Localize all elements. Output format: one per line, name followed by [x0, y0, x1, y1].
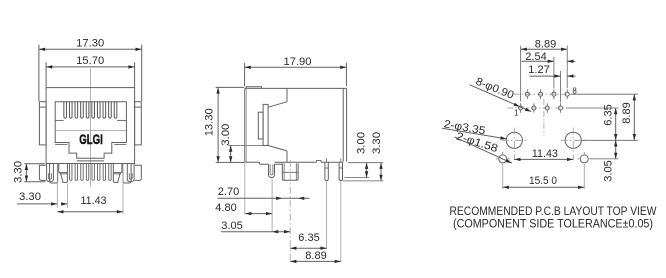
pcb layout: dimension 8.89 (pin1 to pin8 horizontal) [521, 38, 568, 101]
side view: dimension 3.00 (pin length, vertical right) [356, 132, 369, 178]
side view: locating post [282, 163, 298, 180]
pcb layout: pin 1 label [514, 108, 519, 117]
svg-text:17.90: 17.90 [284, 56, 312, 68]
pcb layout: dimension 15.50 (small hole spacing) [503, 175, 585, 189]
side view: dimension 3.00 (card height, vertical) [220, 124, 263, 163]
svg-text:GLGI: GLGI [79, 131, 103, 147]
svg-text:1: 1 [514, 108, 519, 117]
pcb layout: bottom pin row holes (pins 1,3,5,7) [507, 103, 566, 113]
pcb layout: pin 8 label [572, 87, 577, 96]
pcb layout: callout 2-phi3.35 [442, 118, 507, 139]
svg-text:2.70: 2.70 [218, 186, 240, 198]
svg-text:8.89: 8.89 [535, 38, 557, 50]
svg-text:15.70: 15.70 [76, 55, 104, 67]
front view: right shield leg pair [123, 164, 134, 184]
pcb layout: dimension 1.27 (row offset) [528, 64, 575, 102]
svg-text:17.30: 17.30 [76, 37, 104, 49]
front view: left locating tab [59, 164, 68, 183]
side view: top front lip [246, 87, 261, 89]
side view: dimension 6.35 (post to pin1) [290, 232, 326, 250]
side view: right extension lines [343, 163, 383, 181]
front view: dimension 17.30 (overall width) [39, 37, 142, 101]
front view: left shield leg pair [47, 164, 58, 184]
front view: right outer shield ear [135, 165, 142, 180]
front view: cavity back edge line [55, 130, 126, 132]
svg-text:3.05: 3.05 [221, 220, 243, 232]
side view: dimension 4.80 (face to leg) [215, 202, 272, 216]
front view: 8 contact pins [70, 164, 112, 181]
svg-text:8.89: 8.89 [621, 102, 633, 124]
svg-text:15.5 0: 15.5 0 [529, 175, 557, 187]
front view: right locating tab [113, 164, 122, 183]
pcb layout: right extension lines [566, 94, 638, 159]
svg-text:RECOMMENDED P.C.B LAYOUT TOP V: RECOMMENDED P.C.B LAYOUT TOP VIEW [450, 206, 657, 218]
front view: contact comb (8 contact slots) [55, 102, 126, 121]
pcb layout: dimension 8.89 (vertical right) [621, 94, 636, 140]
side view: dimension 8.89 (post to pin2) [290, 250, 341, 263]
pcb layout: left small hole (phi 1.58) [496, 152, 509, 189]
pcb layout: dimension 6.35 (vertical right) [603, 104, 618, 140]
front view: vertical centerline [89, 69, 91, 187]
pcb layout: dimension 11.43 (mounting hole spacing) [514, 148, 573, 161]
svg-text:3.00: 3.00 [356, 132, 368, 154]
svg-text:3.30: 3.30 [12, 161, 24, 183]
front view: extension line right leg [122, 164, 124, 215]
front view: extension line left leg [56, 164, 58, 208]
pcb layout: title text [450, 206, 657, 230]
front view: dimension 11.43 (pin field width) [57, 195, 123, 214]
svg-text:8.89: 8.89 [305, 250, 327, 262]
side view: bottom edge with step [245, 161, 343, 165]
side view: cavity back wall [268, 88, 287, 162]
front view: connector body outline [46, 88, 135, 164]
pcb layout: right small hole (phi 1.58) [578, 152, 591, 189]
side view: dimension 17.90 (depth) [245, 56, 347, 86]
front view: left side tab [39, 102, 46, 145]
pcb layout: dimension 2.54 (pin pitch) [522, 51, 576, 89]
svg-text:3.30: 3.30 [19, 191, 41, 203]
side view: body outline [245, 88, 347, 162]
svg-text:13.30: 13.30 [204, 108, 216, 136]
front view: dimension 3.30 (leg length, vertical) [12, 161, 45, 183]
svg-text:3.00: 3.00 [220, 124, 232, 146]
front view: GLGI logo text [79, 131, 103, 147]
svg-text:3.05: 3.05 [603, 160, 615, 182]
svg-text:1.27: 1.27 [528, 64, 550, 76]
side view: dimension 2.70 (post diameter) [218, 186, 310, 200]
side view: dimension 13.30 (height, vertical) [204, 87, 245, 162]
side view: contact card [263, 104, 268, 145]
side view: contact pin 2 (through-hole) [339, 158, 342, 180]
side view: extension lines below [245, 160, 341, 262]
side view: front shield leg (hairpin) [269, 164, 275, 177]
pcb layout: top pin row holes (pins 2,4,6,8) [514, 89, 577, 99]
svg-text:4.80: 4.80 [215, 202, 237, 214]
side view: dimension 3.30 (leg length, vertical right) [371, 132, 383, 181]
pcb layout: right mounting hole (phi 3.35) [561, 128, 586, 161]
front view: plug opening with latch slot [55, 102, 126, 161]
pcb layout: vertical centerline [543, 99, 545, 136]
side view: dimension 3.05 (leg to post) [221, 220, 290, 233]
front view: left outer shield ear [39, 165, 46, 180]
pcb layout: left mounting hole (phi 3.35) [502, 128, 527, 161]
front view: dimension 15.70 (body width) [46, 55, 135, 87]
svg-text:6.35: 6.35 [603, 104, 615, 126]
side view: contact pin 1 (through-hole) [325, 158, 328, 180]
svg-text:6.35: 6.35 [298, 232, 320, 244]
svg-text:11.43: 11.43 [532, 148, 558, 160]
side view: shield tab inside [258, 112, 263, 139]
pcb layout: dimension 3.05 (vertical right) [603, 140, 618, 181]
pcb layout: callout 8-phi0.90 [470, 76, 532, 112]
front view: right side tab [135, 102, 142, 145]
pcb layout: callout 2-phi1.58 [454, 130, 512, 163]
svg-text:(COMPONENT SIDE TOLERANCE±0.05: (COMPONENT SIDE TOLERANCE±0.05) [453, 219, 653, 231]
svg-text:3.30: 3.30 [371, 132, 383, 154]
front view: dimension 3.30 (leg spacing, horizontal) [17, 184, 67, 208]
svg-text:11.43: 11.43 [81, 195, 107, 207]
